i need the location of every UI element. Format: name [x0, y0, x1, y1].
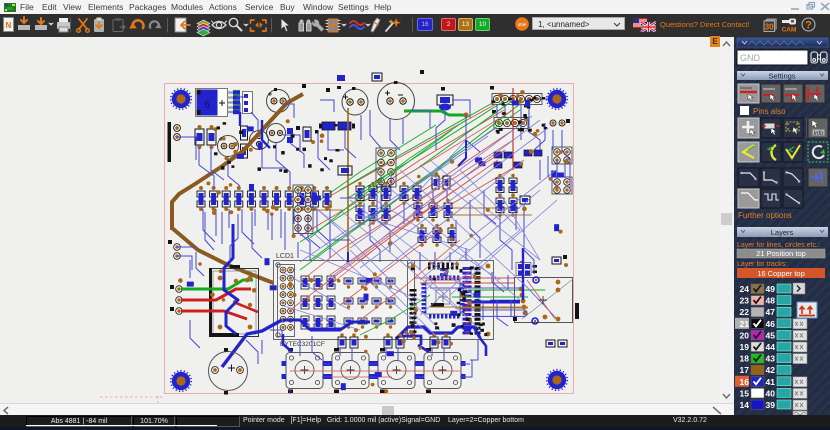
wire red buttons — [290, 371, 460, 377]
collapse bar — [737, 38, 828, 47]
svg-text:16: 16 — [740, 377, 750, 387]
pads pair top right — [550, 119, 570, 126]
mounting hole bottom-right — [547, 370, 568, 391]
resistor R2 — [207, 125, 216, 149]
binoculars button — [811, 52, 827, 63]
connector K1 plus — [539, 296, 547, 304]
wire blue thick diag buzzer — [222, 320, 282, 367]
resistor group mid 4 — [414, 199, 452, 222]
wire red — [330, 104, 496, 196]
pin1 marks scattered — [214, 97, 547, 337]
svg-text:46: 46 — [766, 319, 776, 329]
magic wand — [386, 23, 393, 31]
resistor R1 — [195, 125, 204, 149]
eye — [212, 22, 226, 29]
wire red vertical — [512, 88, 514, 170]
Layers header — [737, 227, 828, 237]
svg-text:Settings: Settings — [768, 72, 795, 81]
svg-text:18: 18 — [740, 354, 750, 364]
mounting hole top-right — [547, 89, 568, 110]
wires into connector left — [420, 282, 515, 284]
row: select buttons — [738, 118, 803, 138]
resistor row middle-left — [197, 186, 331, 211]
IC U2 — [437, 87, 453, 111]
parts cluster — [287, 126, 319, 144]
wire red — [438, 168, 513, 212]
wire green — [340, 101, 496, 190]
svg-text:15: 15 — [740, 388, 750, 398]
svg-text:24: 24 — [740, 284, 750, 294]
svg-text:GND: GND — [740, 53, 761, 63]
ratsnest blue wires long — [300, 116, 557, 315]
wire brown thick branch — [172, 228, 310, 291]
search input — [737, 50, 808, 65]
svg-text:43: 43 — [766, 354, 776, 364]
transformer pads — [218, 276, 253, 330]
svg-text:16 Copper top: 16 Copper top — [757, 269, 805, 278]
resistor group mid 5 — [418, 224, 456, 247]
pin1 mark — [490, 86, 494, 90]
svg-text:45: 45 — [766, 330, 776, 340]
wire brown vertical thin — [347, 108, 349, 252]
horizontal scrollbar — [0, 403, 734, 416]
capacitors above S2 — [338, 333, 358, 348]
svg-text:44: 44 — [766, 342, 776, 352]
paste — [94, 19, 104, 32]
LCD1 pin column — [278, 265, 295, 337]
wavy signals — [350, 21, 364, 25]
MCU QFP U5 — [422, 276, 465, 319]
CAM — [781, 17, 798, 32]
new doc — [4, 18, 14, 32]
stop sign — [515, 17, 529, 31]
transformer T1 outline — [209, 265, 259, 337]
svg-text:48: 48 — [766, 296, 776, 306]
pointer — [281, 18, 290, 32]
svg-text:47: 47 — [766, 307, 776, 317]
connector K1 diagonals — [522, 279, 573, 319]
wire green across MCU — [468, 289, 545, 291]
pin header right edge 2 — [552, 177, 572, 194]
LCD1 corner pads — [276, 263, 412, 337]
capacitor C4 — [218, 136, 239, 157]
wire red — [368, 130, 513, 226]
pin header right edge — [552, 147, 572, 164]
svg-text:?: ? — [805, 20, 812, 32]
svg-text:17: 17 — [740, 365, 750, 375]
wire brown thin — [300, 208, 532, 215]
info button — [807, 118, 829, 138]
header above connector — [516, 261, 537, 276]
parts below header J2 — [546, 340, 567, 347]
wire green thick — [404, 111, 464, 115]
buzzer SP1 — [209, 348, 248, 395]
mounting hole bottom-left — [171, 371, 192, 392]
board outline — [165, 84, 574, 394]
help — [801, 17, 816, 32]
button S2 — [328, 348, 374, 393]
capacitor C3 large — [378, 81, 415, 120]
pin header J2 — [494, 118, 528, 129]
connector K1 pads — [519, 280, 561, 322]
svg-text:21: 21 — [740, 319, 750, 329]
capacitor pair — [432, 176, 450, 189]
pin header column B — [376, 148, 396, 187]
pads left edge upper — [168, 240, 180, 259]
binoculars — [299, 23, 311, 31]
svg-text:Layer for tracks:: Layer for tracks: — [737, 261, 787, 268]
svg-text:Further options: Further options — [738, 211, 792, 220]
undo — [132, 20, 143, 28]
svg-text:40: 40 — [766, 388, 776, 398]
connector X1 outline — [243, 92, 253, 114]
ratsnest green wires 2 — [300, 110, 520, 335]
svg-text:49: 49 — [766, 284, 776, 294]
wire red across MCU — [415, 277, 515, 279]
wire blue loop — [470, 310, 527, 316]
svg-text:23: 23 — [740, 296, 750, 306]
wrench — [312, 20, 324, 32]
diode D1 — [241, 126, 248, 158]
IC U3 — [338, 166, 352, 175]
wire blue thick vertical into connector — [522, 248, 524, 300]
wire blue thick across — [468, 301, 520, 304]
wire red thick left 2 — [181, 311, 247, 319]
LCD1 outline — [274, 261, 415, 340]
svg-text:N: N — [6, 21, 12, 30]
svg-text:Layer for lines, circles etc.:: Layer for lines, circles etc.: — [737, 242, 820, 249]
svg-text:LCD1: LCD1 — [276, 253, 294, 260]
svg-text:6: 6 — [204, 100, 210, 111]
line style buttons row 2 — [738, 189, 803, 208]
regulator U6 body — [197, 90, 218, 116]
blue arrow button — [808, 168, 828, 187]
svg-text:22: 22 — [740, 307, 750, 317]
zoom border — [251, 20, 267, 31]
resistor group mid 2 — [356, 202, 390, 225]
vertical scrollbar — [719, 37, 734, 403]
ratsnest blue wires — [284, 140, 540, 340]
diode circle D2 — [250, 131, 269, 150]
svg-text:STOP: STOP — [518, 23, 527, 27]
MCU top pads — [428, 263, 458, 270]
pin header column A — [293, 185, 313, 234]
capacitor groups inside LCD — [344, 278, 395, 329]
regulator plus mark — [219, 100, 225, 106]
svg-text:20: 20 — [740, 330, 750, 340]
import page — [175, 18, 186, 32]
dropdown — [532, 17, 625, 30]
regulator pins — [228, 90, 241, 114]
via — [463, 112, 468, 117]
button S4 — [420, 348, 466, 393]
parts right edge — [552, 255, 568, 267]
silk black bar — [431, 303, 444, 307]
wire green — [348, 101, 504, 198]
wire green thick left — [181, 280, 253, 289]
wire red — [300, 110, 504, 236]
IC chip — [328, 19, 338, 32]
magnifier — [229, 18, 237, 26]
capacitors above S3 — [384, 333, 404, 348]
button S1 — [282, 348, 328, 393]
svg-text:14: 14 — [740, 400, 750, 410]
wire brown thick — [172, 94, 303, 230]
pads left edge column — [170, 285, 182, 314]
ratsnest red wires — [290, 110, 513, 320]
capacitors above S4 — [430, 333, 450, 348]
connector K1 outline — [515, 278, 573, 323]
svg-text:19: 19 — [740, 342, 750, 352]
scissors — [79, 19, 87, 29]
svg-text:42: 42 — [766, 365, 776, 375]
wire green — [300, 104, 520, 268]
parts right mid — [494, 150, 542, 204]
svg-text:41: 41 — [766, 377, 776, 387]
resistor group mid 3 — [400, 182, 421, 205]
E badge — [710, 36, 720, 47]
svg-text:Layers: Layers — [771, 228, 794, 237]
line style buttons row 1 — [738, 168, 828, 187]
mounting hole top-left — [171, 89, 192, 110]
printer — [57, 22, 70, 29]
connector left edge — [168, 122, 181, 162]
resistor groups inside LCD — [301, 276, 335, 329]
wire red diag — [236, 303, 258, 312]
pin1 mark — [492, 110, 496, 114]
regulator U6 package outline — [196, 89, 228, 117]
30 cube — [762, 17, 778, 32]
wire green — [320, 125, 436, 200]
window buttons — [788, 1, 830, 12]
flags — [633, 18, 656, 32]
wire red thick left 1 — [181, 289, 251, 300]
save to board — [18, 25, 30, 30]
resistor group right 2 — [496, 194, 517, 217]
connector K1 ring pads — [532, 277, 539, 324]
svg-text:39: 39 — [766, 400, 776, 410]
pencil — [371, 18, 380, 32]
MCU corner pads — [411, 264, 491, 337]
MCU right pad columns — [440, 267, 481, 335]
svg-text:21 Position top: 21 Position top — [756, 249, 806, 258]
inductor L1 — [319, 122, 355, 130]
wire blue thick btn — [402, 336, 429, 352]
svg-text:Pins also: Pins also — [753, 107, 786, 116]
board origin dashes — [100, 396, 164, 404]
MCU left pads — [410, 289, 417, 338]
load from board — [35, 25, 47, 30]
vias — [178, 90, 569, 393]
wire blue thick MCU bottom — [396, 327, 480, 339]
connector K1 pin1 tick — [513, 317, 517, 321]
parts top mid — [302, 70, 424, 92]
wire green — [300, 101, 512, 242]
wire blue thin verticals — [190, 212, 285, 278]
wire brown stub — [291, 262, 295, 291]
resistor group mid 1 — [356, 182, 390, 205]
pin header J1 — [492, 94, 542, 105]
button S3 — [374, 348, 420, 393]
capacitor C1 — [267, 88, 290, 113]
wire blue thick zigzag — [224, 224, 238, 334]
row: angle buttons — [738, 142, 828, 162]
wire blue thick lcd bottom — [283, 320, 342, 329]
colored layer buttons as divs — [417, 18, 433, 31]
capacitor C2 — [337, 86, 368, 115]
circular arrow button — [808, 142, 828, 162]
svg-text:30: 30 — [765, 23, 774, 32]
pins also — [740, 106, 749, 115]
SMD parts scattered — [187, 100, 564, 391]
svg-text:CAM: CAM — [782, 27, 797, 33]
resistor group right 1 — [496, 174, 517, 197]
wire blue thick extras — [240, 112, 486, 356]
layer stack — [197, 20, 210, 27]
diode circle D3 — [267, 124, 286, 143]
connector K1 key bar — [575, 303, 579, 319]
wire blue thin traces — [177, 97, 570, 394]
wire brown across — [455, 307, 528, 309]
MCU block outline — [408, 261, 494, 340]
svg-text:Info: Info — [813, 131, 824, 137]
Settings header — [737, 71, 828, 80]
4 track-mode buttons — [738, 84, 759, 103]
redo — [150, 21, 159, 27]
copy disabled — [113, 20, 123, 32]
